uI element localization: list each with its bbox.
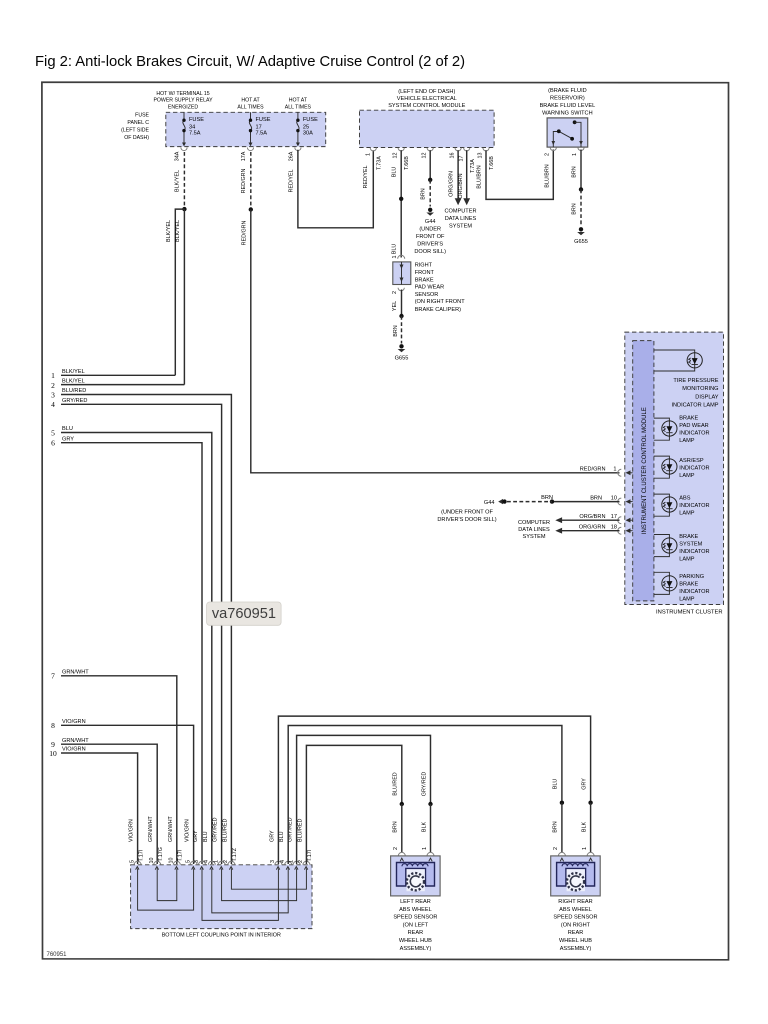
connector cup fuse 17 exit — [247, 148, 253, 151]
svg-text:GRY: GRY — [193, 830, 199, 842]
coupling pin 1b GRY/RED — [288, 817, 301, 869]
svg-text:7.5A: 7.5A — [189, 131, 201, 137]
coupling pin 4b BLU — [279, 831, 292, 869]
wire BLK to right sensor pin1 — [590, 803, 592, 852]
svg-text:BRN: BRN — [393, 325, 399, 336]
svg-text:BLU: BLU — [392, 167, 398, 178]
svg-text:12: 12 — [422, 153, 428, 159]
coupling pin 10b GRN/WHT — [168, 816, 184, 870]
svg-text:2: 2 — [544, 153, 550, 156]
svg-text:34A: 34A — [175, 151, 181, 161]
lamp L2 brake pad wear — [654, 418, 677, 440]
svg-text:4: 4 — [204, 860, 210, 863]
right front sensor label — [415, 263, 466, 314]
svg-text:(LEFT END OF DASH): (LEFT END OF DASH) — [398, 89, 455, 95]
fuse F34 7.5A — [182, 112, 204, 146]
svg-text:13: 13 — [478, 153, 484, 159]
coupling pin 3 GRY — [193, 830, 206, 870]
svg-text:BRAKE: BRAKE — [679, 416, 698, 422]
wire BLK to left sensor pin1 — [430, 804, 432, 852]
svg-text:5: 5 — [129, 860, 135, 863]
svg-text:SENSOR: SENSOR — [415, 292, 439, 298]
svg-text:INDICATOR: INDICATOR — [679, 465, 709, 471]
svg-text:HOT AT: HOT AT — [241, 98, 260, 104]
svg-text:ABS WHEEL: ABS WHEEL — [559, 907, 592, 913]
coupling pin 3b GRY — [269, 830, 282, 870]
svg-text:34: 34 — [189, 124, 195, 130]
svg-text:FUSE: FUSE — [303, 117, 318, 123]
coupling internal link GRN/WHT — [157, 869, 177, 901]
svg-text:PANEL C: PANEL C — [127, 120, 149, 126]
connector cup module pin17 — [464, 148, 470, 151]
wire GRY/RED coupling to left rear sensor — [297, 735, 431, 864]
svg-text:BLK/YEL: BLK/YEL — [166, 220, 172, 242]
svg-text:ORG/GRN: ORG/GRN — [449, 171, 455, 197]
svg-text:T.17I: T.17I — [307, 850, 313, 862]
svg-text:GRY: GRY — [269, 830, 275, 842]
svg-text:BLK: BLK — [421, 822, 427, 833]
wire ORG/BRN computer data lines arrow — [555, 517, 619, 523]
svg-text:T.66B: T.66B — [404, 156, 410, 170]
svg-text:RED/GRN: RED/GRN — [241, 168, 247, 193]
node RED/GRN junction — [249, 207, 253, 211]
vehicle electrical system control module box — [360, 110, 495, 147]
wire BRN to right sensor pin2 — [561, 803, 563, 852]
svg-text:INSTRUMENT CLUSTER: INSTRUMENT CLUSTER — [656, 610, 723, 616]
svg-text:7: 7 — [51, 672, 55, 681]
lamp L6 parking brake — [654, 572, 677, 594]
svg-text:1: 1 — [392, 256, 398, 259]
svg-text:10: 10 — [149, 858, 155, 864]
watermark badge va760951 — [207, 602, 282, 625]
svg-text:TIRE PRESSURE: TIRE PRESSURE — [673, 378, 718, 384]
wire 2 BLK/YEL horizontal — [61, 384, 184, 386]
svg-text:(ON RIGHT FRONT: (ON RIGHT FRONT — [415, 299, 466, 305]
wire GRY coupling to right rear sensor — [278, 716, 590, 864]
svg-text:VIO/GRN: VIO/GRN — [185, 819, 191, 842]
fuse panel header col1 — [153, 91, 213, 111]
lamp L5 label — [679, 534, 709, 563]
connector cup fuse 25 exit — [295, 148, 301, 151]
svg-text:INDICATOR: INDICATOR — [679, 589, 709, 595]
svg-text:17: 17 — [611, 514, 617, 520]
svg-text:BLU/RED: BLU/RED — [222, 819, 228, 842]
svg-text:G44: G44 — [425, 219, 436, 225]
cluster pin10 connector — [590, 495, 633, 505]
connector cup switch pin2 — [550, 147, 556, 150]
cluster pin1 connector — [580, 467, 633, 477]
svg-text:SYSTEM: SYSTEM — [522, 534, 545, 540]
coupling internal link VIO/GRN — [138, 869, 194, 911]
fuse F17 7.5A — [249, 112, 271, 146]
svg-text:LAMP: LAMP — [679, 556, 695, 562]
svg-text:YEL: YEL — [392, 301, 398, 311]
node BRN junction — [579, 187, 583, 191]
svg-text:10: 10 — [169, 858, 175, 864]
svg-text:DRIVER'S DOOR SILL): DRIVER'S DOOR SILL) — [437, 517, 496, 523]
svg-text:BRN: BRN — [590, 495, 602, 501]
svg-text:GRN/WHT: GRN/WHT — [168, 816, 174, 842]
svg-text:ABS: ABS — [679, 496, 690, 502]
svg-text:VIO/GRN: VIO/GRN — [62, 747, 86, 753]
fuse panel name label — [121, 113, 149, 142]
svg-text:BLU: BLU — [279, 831, 285, 842]
svg-text:2: 2 — [223, 860, 229, 863]
svg-text:LAMP: LAMP — [679, 511, 695, 517]
svg-text:LAMP: LAMP — [679, 438, 695, 444]
left rear sensor label — [393, 899, 437, 952]
svg-text:G44: G44 — [484, 500, 495, 506]
svg-text:1: 1 — [51, 371, 55, 380]
svg-text:GRY/RED: GRY/RED — [421, 772, 427, 797]
instrument cluster control module box — [633, 341, 654, 601]
svg-text:FUSE: FUSE — [256, 117, 271, 123]
wire BRN dashed from module pin12b to G44 — [429, 150, 431, 180]
svg-text:VIO/GRN: VIO/GRN — [129, 819, 135, 842]
svg-text:760951: 760951 — [47, 952, 68, 958]
svg-text:RED/YEL: RED/YEL — [363, 165, 369, 188]
coupling pin 4 BLU — [203, 831, 216, 869]
svg-text:3: 3 — [270, 860, 276, 863]
svg-text:10: 10 — [611, 495, 617, 501]
svg-text:1: 1 — [365, 153, 371, 156]
wire BLK/YEL branch stub — [175, 209, 184, 375]
svg-text:1: 1 — [213, 860, 219, 863]
svg-text:BLK/YEL: BLK/YEL — [175, 220, 181, 242]
lamp L4 abs — [654, 494, 677, 516]
wire 7 GRN/WHT — [61, 676, 177, 864]
wire BLK/YEL dashed from fuse 34 — [183, 152, 185, 207]
svg-text:va760951: va760951 — [212, 606, 276, 622]
svg-text:COMPUTER: COMPUTER — [518, 520, 550, 526]
wire BRN dashed to G655 — [580, 189, 582, 226]
svg-text:2: 2 — [393, 847, 399, 850]
svg-text:T.17G: T.17G — [158, 847, 164, 861]
brake fluid level warning switch S — [547, 118, 588, 147]
svg-text:FUSE: FUSE — [189, 117, 204, 123]
svg-text:10: 10 — [49, 749, 57, 758]
svg-text:DATA LINES: DATA LINES — [518, 527, 550, 533]
svg-text:MONITORING: MONITORING — [682, 386, 718, 392]
wire BRN dashed from G44 — [507, 501, 552, 503]
svg-text:T.66B: T.66B — [489, 156, 495, 170]
svg-text:BLU/BRN: BLU/BRN — [477, 165, 483, 188]
svg-text:WHEEL HUB: WHEEL HUB — [399, 938, 432, 944]
ground G44 top — [414, 208, 446, 255]
cluster pin17 connector — [579, 514, 632, 524]
svg-text:T.73A: T.73A — [376, 156, 382, 170]
svg-text:GRN/WHT: GRN/WHT — [148, 816, 154, 842]
svg-text:LAMP: LAMP — [679, 473, 695, 479]
svg-text:ORG/BRN: ORG/BRN — [458, 173, 464, 198]
connector cup module pin1 — [370, 148, 376, 151]
svg-text:BRAKE: BRAKE — [679, 534, 698, 540]
svg-text:GRN/WHT: GRN/WHT — [62, 738, 89, 744]
coupling internal link BLU — [212, 869, 288, 913]
svg-text:LAMP: LAMP — [679, 596, 695, 602]
node BLK/YEL junction — [182, 207, 186, 211]
svg-text:GRY/RED: GRY/RED — [62, 398, 87, 404]
wire 4 GRY/RED — [61, 404, 222, 864]
left rear ABS wheel speed sensor B — [391, 856, 441, 896]
lamp L1 tire pressure — [654, 350, 702, 371]
svg-text:3: 3 — [51, 390, 55, 399]
svg-text:BRN: BRN — [553, 821, 559, 832]
svg-text:BLU: BLU — [392, 244, 398, 255]
svg-text:BRAKE CALIPER): BRAKE CALIPER) — [415, 307, 461, 313]
fuse panel header col3 — [285, 98, 312, 111]
svg-text:OF DASH): OF DASH) — [124, 135, 149, 141]
svg-text:BLK/YEL: BLK/YEL — [175, 170, 181, 192]
svg-text:INDICATOR LAMP: INDICATOR LAMP — [671, 402, 718, 408]
svg-text:FRONT: FRONT — [415, 270, 435, 276]
svg-text:BLK/YEL: BLK/YEL — [62, 369, 85, 375]
brake fluid level warning switch title — [540, 88, 596, 117]
svg-text:5: 5 — [185, 860, 191, 863]
border frame — [42, 82, 729, 960]
svg-text:ORG/BRN: ORG/BRN — [579, 514, 605, 520]
svg-text:SYSTEM: SYSTEM — [679, 541, 702, 547]
svg-text:6: 6 — [51, 439, 55, 448]
svg-text:FRONT OF: FRONT OF — [416, 234, 445, 240]
bottom left coupling point box — [131, 865, 312, 929]
svg-text:25: 25 — [303, 124, 309, 130]
wire ORG/GRN computer data lines arrow — [555, 528, 619, 534]
lamp L3 asr/esp — [654, 456, 677, 478]
svg-text:VEHICLE ELECTRICAL: VEHICLE ELECTRICAL — [397, 96, 457, 102]
svg-text:BRN: BRN — [572, 166, 578, 177]
svg-text:ENERGIZED: ENERGIZED — [168, 104, 199, 110]
wire BLU/BRN from module pin13 to switch — [486, 150, 553, 200]
svg-text:INDICATOR: INDICATOR — [679, 431, 709, 437]
svg-text:T.17I: T.17I — [138, 850, 144, 862]
svg-text:T.17I: T.17I — [178, 850, 184, 862]
ground G44 mid — [437, 499, 506, 523]
coupling internal link GRY/RED — [222, 869, 297, 901]
svg-text:1: 1 — [422, 847, 428, 850]
svg-text:RED/GRN: RED/GRN — [580, 467, 606, 473]
instrument cluster outer box — [625, 332, 724, 604]
svg-text:T.17Z: T.17Z — [232, 847, 238, 861]
svg-text:ALL TIMES: ALL TIMES — [237, 104, 264, 110]
svg-text:BRAKE: BRAKE — [415, 278, 434, 284]
svg-text:RIGHT: RIGHT — [415, 263, 433, 269]
wire 9 GRN/WHT — [61, 744, 157, 864]
fuse panel C box — [166, 112, 326, 146]
connector cup module pin13 — [483, 148, 489, 151]
svg-text:INDICATOR: INDICATOR — [679, 549, 709, 555]
wire YEL from sensor pin2 — [401, 290, 403, 317]
svg-text:SPEED SENSOR: SPEED SENSOR — [393, 915, 437, 921]
module title — [388, 89, 465, 109]
connector cup module pin12 BLU — [398, 148, 404, 151]
right rear sensor label — [553, 899, 597, 952]
wire BRN dashed to G655 — [401, 316, 403, 344]
computer data lines label mid — [518, 520, 550, 540]
svg-text:RIGHT REAR: RIGHT REAR — [558, 899, 592, 905]
node GRY/RED to BLK junction — [428, 802, 432, 806]
node BLU/RED to BRN junction — [400, 802, 404, 806]
wire RED/GRN dashed from fuse 17 — [250, 152, 252, 207]
svg-text:BRN: BRN — [421, 188, 427, 199]
wire ORG/GRN arrow from pin16 — [449, 150, 462, 205]
svg-text:DISPLAY: DISPLAY — [695, 394, 718, 400]
svg-text:12: 12 — [393, 153, 399, 159]
svg-text:26A: 26A — [289, 151, 295, 161]
svg-text:HOT W/ TERMINAL 15: HOT W/ TERMINAL 15 — [156, 91, 209, 97]
svg-text:PARKING: PARKING — [679, 574, 704, 580]
svg-text:BLK/YEL: BLK/YEL — [62, 378, 85, 384]
wire 3 BLU/RED — [61, 395, 231, 865]
svg-text:INSTRUMENT CLUSTER CONTROL MOD: INSTRUMENT CLUSTER CONTROL MODULE — [642, 407, 648, 534]
svg-text:1: 1 — [288, 860, 294, 863]
wire RED/GRN vertical to cluster pin1 — [251, 210, 620, 473]
connector cup left sensor pin1 — [427, 852, 434, 855]
coupling pin 2b BLU/RED — [297, 819, 313, 870]
svg-text:30A: 30A — [303, 131, 313, 137]
svg-text:DOOR SILL): DOOR SILL) — [414, 249, 446, 255]
coupling pin 5b VIO/GRN — [185, 819, 198, 869]
node BLU inline junction — [399, 197, 403, 201]
lamp L3 label — [679, 458, 709, 479]
svg-text:LEFT REAR: LEFT REAR — [400, 899, 431, 905]
connector cup module pin12 BRN — [427, 148, 433, 151]
svg-text:BRN: BRN — [393, 821, 399, 832]
svg-text:WARNING SWITCH: WARNING SWITCH — [542, 111, 592, 117]
svg-text:BLK: BLK — [581, 822, 587, 833]
connector cup right sensor pin2 — [558, 852, 565, 855]
fuse F25 30A — [296, 112, 318, 146]
svg-text:RED/YEL: RED/YEL — [289, 169, 295, 192]
wire BRN to cluster pin10 — [552, 501, 620, 503]
svg-text:ASSEMBLY): ASSEMBLY) — [400, 946, 432, 952]
svg-text:BLU: BLU — [62, 426, 73, 432]
svg-text:18: 18 — [611, 524, 617, 530]
computer data lines label top — [444, 209, 476, 230]
svg-text:INDICATOR: INDICATOR — [679, 503, 709, 509]
svg-text:7.5A: 7.5A — [256, 131, 268, 137]
wire BLU from module pin12 — [400, 150, 402, 257]
coupling pin 1 GRY/RED — [213, 817, 226, 869]
coupling pin 2 BLU/RED — [222, 819, 238, 870]
wire ORG/BRN arrow from pin17 — [458, 150, 470, 205]
cluster pin18 connector — [579, 524, 633, 534]
svg-text:17: 17 — [256, 124, 262, 130]
node YEL/BRN junction — [399, 314, 403, 318]
svg-text:(LEFT SIDE: (LEFT SIDE — [121, 128, 149, 134]
svg-text:9: 9 — [51, 740, 55, 749]
node BRN junction mid — [550, 499, 554, 503]
lamp L6 label — [679, 574, 709, 603]
svg-text:SYSTEM: SYSTEM — [449, 224, 472, 230]
svg-text:DATA LINES: DATA LINES — [445, 216, 477, 222]
connector cup module pin16 — [455, 148, 461, 151]
svg-text:17: 17 — [458, 156, 464, 162]
svg-text:4: 4 — [280, 860, 286, 863]
wire RED/YEL from fuse 25 to module pin1 — [298, 150, 373, 228]
coupling internal link GRY — [202, 869, 278, 921]
wire 1 BLK/YEL horizontal — [61, 374, 175, 376]
svg-text:4: 4 — [51, 400, 55, 409]
node BLU to BRN junction right — [560, 801, 564, 805]
svg-text:FUSE: FUSE — [135, 113, 149, 119]
connector cup right sensor pin1 — [587, 852, 594, 855]
wire BLK/YEL vertical 2 — [183, 209, 185, 385]
svg-text:(UNDER: (UNDER — [419, 227, 441, 233]
svg-text:GRY: GRY — [62, 436, 74, 442]
svg-text:G655: G655 — [395, 356, 409, 362]
svg-text:GRY: GRY — [581, 778, 587, 790]
svg-text:(BRAKE FLUID: (BRAKE FLUID — [548, 88, 587, 94]
svg-text:BRN: BRN — [541, 495, 553, 501]
connector cup fuse 34 exit — [181, 148, 187, 151]
svg-text:(UNDER FRONT OF: (UNDER FRONT OF — [441, 510, 493, 516]
svg-text:(ON RIGHT: (ON RIGHT — [561, 922, 591, 928]
wire BLU coupling to right rear sensor — [288, 726, 562, 865]
wire BLU/RED coupling to left rear sensor — [306, 745, 401, 864]
svg-text:3: 3 — [194, 860, 200, 863]
svg-text:REAR: REAR — [568, 930, 584, 936]
svg-text:GRY/RED: GRY/RED — [213, 817, 219, 842]
wire 6 GRY — [61, 443, 202, 864]
svg-text:2: 2 — [392, 291, 398, 294]
svg-text:REAR: REAR — [408, 930, 424, 936]
svg-text:GRN/WHT: GRN/WHT — [62, 670, 89, 676]
wire BRN from switch pin1 — [580, 150, 582, 190]
coupling pin 5 VIO/GRN — [129, 819, 145, 869]
svg-text:COMPUTER: COMPUTER — [444, 209, 476, 215]
ground G655 switch — [574, 227, 588, 245]
coupling pin 10 GRN/WHT — [148, 816, 164, 870]
svg-text:G655: G655 — [574, 239, 588, 245]
svg-text:16: 16 — [450, 153, 456, 159]
lamp L2 label — [679, 416, 709, 445]
svg-text:BRAKE FLUID LEVEL: BRAKE FLUID LEVEL — [540, 103, 596, 109]
wire 8 VIO/GRN — [61, 725, 194, 864]
node BRN junction — [428, 178, 432, 182]
svg-text:ALL TIMES: ALL TIMES — [285, 104, 312, 110]
coupling internal link BLU/RED — [231, 869, 306, 890]
svg-text:1: 1 — [613, 467, 616, 473]
wire 10 VIO/GRN — [61, 753, 138, 864]
svg-text:5: 5 — [51, 428, 55, 437]
svg-text:1: 1 — [582, 847, 588, 850]
svg-text:BLU/BRN: BLU/BRN — [544, 164, 550, 187]
svg-text:ASSEMBLY): ASSEMBLY) — [560, 946, 592, 952]
svg-text:2: 2 — [553, 847, 559, 850]
svg-text:PAD WEAR: PAD WEAR — [679, 423, 708, 429]
svg-text:BLU/RED: BLU/RED — [297, 819, 303, 842]
svg-text:2: 2 — [51, 381, 55, 390]
svg-text:SYSTEM CONTROL MODULE: SYSTEM CONTROL MODULE — [388, 103, 465, 109]
lamp L1 label — [671, 378, 718, 408]
svg-text:WHEEL HUB: WHEEL HUB — [559, 938, 592, 944]
svg-text:SPEED SENSOR: SPEED SENSOR — [553, 915, 597, 921]
svg-text:1: 1 — [572, 153, 578, 156]
wire 5 BLU — [61, 433, 212, 865]
svg-text:DRIVER'S: DRIVER'S — [417, 242, 443, 248]
svg-text:RESERVOIR): RESERVOIR) — [550, 96, 585, 102]
svg-text:RED/GRN: RED/GRN — [241, 220, 247, 245]
svg-text:HOT AT: HOT AT — [289, 98, 308, 104]
right front brake pad wear sensor — [392, 255, 411, 294]
svg-text:BRAKE: BRAKE — [679, 581, 698, 587]
svg-text:BLU/RED: BLU/RED — [62, 388, 86, 394]
svg-text:17A: 17A — [241, 151, 247, 161]
svg-text:BLU/RED: BLU/RED — [393, 772, 399, 795]
svg-text:BLU: BLU — [203, 831, 209, 842]
svg-text:PAD WEAR: PAD WEAR — [415, 284, 444, 290]
